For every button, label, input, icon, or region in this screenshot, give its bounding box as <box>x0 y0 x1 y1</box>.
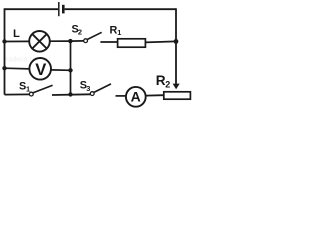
svg-text:A: A <box>131 88 141 104</box>
ammeter A <box>126 87 146 107</box>
wire top-left from corner to battery <box>5 8 59 10</box>
wire S2 contact to R1 <box>100 41 117 43</box>
node: voltmeter junction on left border <box>2 66 6 70</box>
wire S1 contact to S3 <box>52 93 90 96</box>
svg-text:R: R <box>156 73 166 88</box>
wire left border <box>4 8 6 94</box>
wire middle vertical branch <box>70 41 72 94</box>
wire S3 contact to ammeter <box>116 95 127 97</box>
node: junction middle branch / voltmeter <box>68 68 72 72</box>
switch S2 <box>84 32 102 42</box>
rheostat R2 <box>164 92 191 99</box>
svg-text:3: 3 <box>86 84 90 93</box>
wire junction to switch S2 <box>70 40 83 42</box>
svg-text:V: V <box>35 60 46 79</box>
svg-text:2: 2 <box>165 80 170 90</box>
node: lamp-row junction on left border <box>2 39 6 43</box>
node: junction middle branch / bottom wire <box>68 92 72 96</box>
node: junction lamp row / middle branch <box>68 39 72 43</box>
svg-text:R: R <box>110 24 118 36</box>
wire lamp to junction <box>50 40 71 42</box>
wire top-right from battery to corner <box>65 8 176 10</box>
lamp L <box>29 31 50 52</box>
wire left border to lamp <box>5 40 30 42</box>
node: junction right branch <box>174 39 179 44</box>
resistor R1 <box>118 39 146 47</box>
wire left border to voltmeter <box>5 67 30 70</box>
wire ammeter to R2 <box>146 94 164 96</box>
svg-text:1: 1 <box>26 84 30 93</box>
voltmeter V <box>29 58 51 80</box>
wire voltmeter to middle branch <box>51 69 71 71</box>
wire right vertical to rheostat arrow <box>175 8 177 84</box>
svg-text:L: L <box>13 28 20 40</box>
wire R1 to right branch <box>145 41 176 42</box>
svg-text:1: 1 <box>117 28 121 37</box>
svg-text:2: 2 <box>78 28 82 37</box>
rheostat wiper arrowhead <box>173 84 180 90</box>
wire bottom-left to switch S1 <box>5 93 30 95</box>
switch S1 <box>29 85 52 96</box>
battery <box>59 2 64 16</box>
switch S3 <box>90 84 111 96</box>
